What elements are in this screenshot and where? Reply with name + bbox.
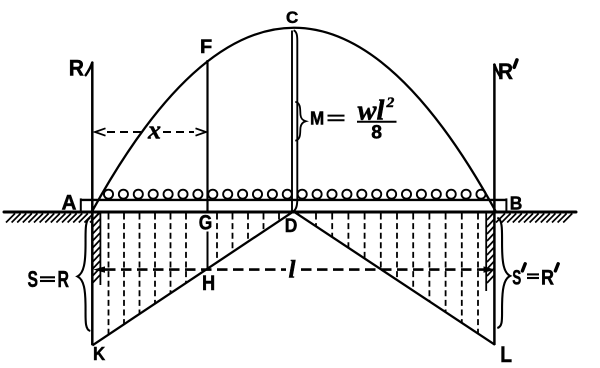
- equals sign of M: [328, 116, 345, 121]
- beam top line: [80, 199, 507, 201]
- svg-text:M: M: [310, 108, 324, 128]
- central ordinate C-D left stroke: [291, 31, 293, 212]
- svg-text:x: x: [147, 116, 161, 145]
- svg-text:D: D: [285, 215, 298, 237]
- svg-text:B: B: [510, 192, 523, 213]
- svg-text:l: l: [289, 257, 296, 284]
- left brace for S=R: [78, 218, 91, 331]
- ground hatching left of support A: [6, 214, 99, 223]
- right shear strip hatching: [487, 212, 494, 283]
- l dimension dashed line: [105, 268, 484, 271]
- svg-text:R: R: [58, 266, 70, 292]
- support step at B: [505, 198, 507, 212]
- x dimension right arrowhead: [196, 128, 207, 135]
- svg-text:A: A: [62, 190, 77, 214]
- svg-text:C: C: [286, 8, 298, 27]
- reaction line R' / shear edge B-L: [493, 64, 496, 345]
- svg-text:L: L: [500, 342, 512, 367]
- svg-text:S: S: [512, 267, 521, 290]
- shear diagram hypotenuse K-D: [92, 211, 293, 345]
- arrow barb of R: [86, 63, 93, 76]
- right brace for S'=R': [497, 218, 510, 328]
- svg-text:H: H: [202, 272, 215, 295]
- ground hatching right of support B: [496, 214, 572, 223]
- distributed load rollers: [104, 190, 486, 199]
- dashed shear ordinates in left triangle: [109, 214, 280, 335]
- svg-text:2: 2: [385, 95, 394, 111]
- left shear strip edge: [99, 212, 101, 285]
- svg-text:G: G: [199, 210, 213, 234]
- arrow barb of R': [494, 65, 500, 77]
- small brace at M ordinate: [295, 102, 306, 141]
- right shear strip edge: [485, 212, 487, 291]
- bending moment parabola A-C-B: [92, 28, 496, 212]
- shear diagram hypotenuse D-L: [294, 211, 496, 344]
- svg-text:F: F: [200, 37, 212, 58]
- fraction bar: [357, 121, 397, 123]
- equals of S'=R': [527, 274, 539, 278]
- x dimension left arrowhead: [95, 128, 106, 135]
- ordinate line F-G: [206, 60, 208, 211]
- svg-text:R: R: [69, 56, 84, 81]
- central ordinate C-D right stroke: [293, 30, 297, 211]
- ground line: [4, 211, 576, 214]
- svg-text:8: 8: [371, 121, 382, 143]
- reaction line R / shear edge A-K: [91, 62, 94, 345]
- svg-text:R: R: [498, 59, 513, 84]
- l dimension left arrowhead: [93, 266, 105, 272]
- solid ordinate G-H: [207, 232, 209, 270]
- svg-text:K: K: [93, 343, 106, 364]
- x dimension dashed line: [107, 131, 194, 133]
- svg-text:S: S: [28, 266, 39, 292]
- equals of S=R: [40, 277, 55, 281]
- dashed shear ordinates in right triangle: [316, 214, 478, 334]
- left shear strip hatching: [93, 212, 101, 283]
- svg-text:R: R: [541, 267, 554, 290]
- support step at A: [80, 198, 82, 212]
- l dimension right arrowhead: [484, 266, 496, 272]
